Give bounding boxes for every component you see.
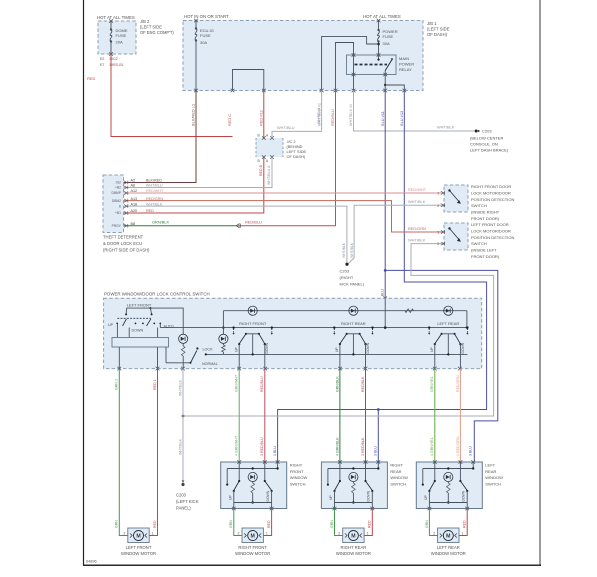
- svg-text:2: 2: [437, 242, 439, 246]
- svg-text:PANEL): PANEL): [176, 506, 191, 511]
- svg-text:RIGHT REAR: RIGHT REAR: [341, 321, 366, 326]
- svg-text:FUSE: FUSE: [383, 34, 394, 39]
- svg-text:SWITCH: SWITCH: [290, 481, 306, 486]
- svg-text:RIGHT: RIGHT: [290, 463, 303, 468]
- svg-text:RED/BLK: RED/BLK: [361, 376, 365, 392]
- svg-text:(LEFT SIDE: (LEFT SIDE: [427, 27, 450, 32]
- svg-text:GRN: GRN: [229, 520, 233, 528]
- svg-text:1: 1: [152, 532, 154, 536]
- svg-text:UP: UP: [108, 323, 114, 327]
- svg-text:64896: 64896: [86, 560, 97, 564]
- svg-text:DOWN: DOWN: [461, 342, 465, 353]
- svg-text:GRN/YEL: GRN/YEL: [430, 376, 434, 392]
- svg-text:POWER WINDOW/DOOR LOCK CONTROL: POWER WINDOW/DOOR LOCK CONTROL SWITCH: [104, 292, 210, 297]
- svg-text:WHT/BLK: WHT/BLK: [178, 379, 182, 396]
- svg-text:LEFT DASH BRACE): LEFT DASH BRACE): [470, 147, 509, 152]
- svg-text:WINDOW: WINDOW: [290, 475, 308, 480]
- svg-text:(BELOW CENTER: (BELOW CENTER: [470, 135, 503, 140]
- svg-text:RED/WHT: RED/WHT: [408, 187, 427, 192]
- svg-text:RED: RED: [153, 520, 157, 528]
- svg-text:NORMAL: NORMAL: [202, 362, 218, 366]
- svg-text:REAR: REAR: [485, 469, 496, 474]
- svg-text:GRN: GRN: [425, 520, 429, 528]
- svg-text:M: M: [251, 534, 255, 540]
- svg-text:WHT/BLK M: WHT/BLK M: [348, 104, 353, 126]
- svg-text:C203: C203: [340, 269, 350, 274]
- svg-text:RED/WHT: RED/WHT: [146, 189, 164, 193]
- svg-text:WINDOW MOTOR: WINDOW MOTOR: [336, 551, 371, 556]
- svg-text:1: 1: [437, 192, 439, 196]
- svg-text:(INSIDE RIGHT: (INSIDE RIGHT: [471, 210, 500, 215]
- svg-text:LEFT REAR: LEFT REAR: [437, 321, 459, 326]
- svg-text:(RIGHT: (RIGHT: [340, 275, 354, 280]
- svg-text:2: 2: [437, 204, 439, 208]
- svg-text:LOCK MOTOR/DOOR: LOCK MOTOR/DOOR: [471, 190, 511, 195]
- svg-text:J/B 2: J/B 2: [140, 19, 150, 24]
- svg-text:18G2: 18G2: [109, 57, 118, 61]
- svg-text:HOT AT ALL TIMES: HOT AT ALL TIMES: [363, 14, 401, 19]
- svg-text:DBMP: DBMP: [111, 191, 121, 195]
- svg-text:2: 2: [123, 532, 125, 536]
- svg-text:A2: A2: [131, 179, 136, 183]
- svg-text:RED/GRN: RED/GRN: [456, 375, 460, 392]
- svg-text:LEFT FRONT: LEFT FRONT: [127, 302, 152, 307]
- svg-text:(RIGHT SIDE OF DASH): (RIGHT SIDE OF DASH): [103, 248, 150, 253]
- svg-text:1 RED/GRN: 1 RED/GRN: [456, 436, 460, 456]
- svg-text:RED C: RED C: [227, 114, 232, 126]
- svg-text:RIGHT FRONT DOOR: RIGHT FRONT DOOR: [471, 184, 511, 189]
- svg-text:DOWN: DOWN: [266, 490, 270, 501]
- svg-text:GRN: GRN: [330, 520, 334, 528]
- svg-text:RED/BLU: RED/BLU: [260, 376, 264, 392]
- svg-text:GRN/BLK: GRN/BLK: [335, 376, 339, 392]
- svg-text:OF ENG COMP'T): OF ENG COMP'T): [140, 30, 174, 35]
- svg-text:WHT/BLK: WHT/BLK: [342, 242, 346, 258]
- svg-text:A13: A13: [131, 197, 138, 201]
- svg-text:WHT/BLK: WHT/BLK: [408, 238, 426, 243]
- svg-text:C203: C203: [482, 129, 492, 134]
- svg-text:E2: E2: [100, 57, 104, 61]
- svg-text:LOCK: LOCK: [203, 347, 214, 351]
- svg-text:FUSE: FUSE: [116, 33, 127, 38]
- svg-text:POSITION DETECTION: POSITION DETECTION: [471, 235, 514, 240]
- svg-text:DOWN: DOWN: [132, 329, 144, 333]
- svg-text:POWER: POWER: [399, 62, 414, 67]
- svg-text:SWITCH: SWITCH: [485, 481, 501, 486]
- svg-text:RED 1: RED 1: [153, 379, 157, 390]
- svg-text:DOWN: DOWN: [366, 342, 370, 353]
- svg-text:BLU #13: BLU #13: [399, 111, 404, 126]
- svg-text:RIGHT FRONT: RIGHT FRONT: [238, 545, 267, 550]
- svg-text:M: M: [136, 534, 140, 540]
- svg-text:1 BLU: 1 BLU: [273, 446, 277, 456]
- svg-text:SWITCH: SWITCH: [390, 481, 406, 486]
- svg-text:DOWN: DOWN: [462, 490, 466, 501]
- svg-text:REAR: REAR: [390, 469, 401, 474]
- svg-text:BLU #11: BLU #11: [380, 111, 385, 126]
- svg-text:RED: RED: [267, 520, 271, 528]
- svg-text:RED: RED: [463, 520, 467, 528]
- svg-text:WHT/BLU: WHT/BLU: [146, 184, 163, 188]
- svg-text:M: M: [351, 534, 355, 540]
- svg-text:30A: 30A: [200, 40, 207, 45]
- svg-text:WHT/BLK: WHT/BLK: [178, 438, 182, 455]
- svg-text:3 BLU: 3 BLU: [374, 446, 378, 456]
- svg-text:RED B: RED B: [259, 164, 263, 176]
- svg-text:GRN 2: GRN 2: [115, 379, 119, 390]
- svg-text:C203: C203: [176, 493, 187, 498]
- svg-text:RED: RED: [146, 209, 154, 213]
- svg-text:1: 1: [266, 532, 268, 536]
- svg-text:3 RED/BLU: 3 RED/BLU: [260, 437, 264, 456]
- svg-text:M: M: [446, 534, 450, 540]
- svg-text:J/B 1: J/B 1: [427, 21, 437, 26]
- svg-text:& DOOR LOCK ECU: & DOOR LOCK ECU: [103, 241, 142, 246]
- svg-text:FRONT: FRONT: [290, 469, 304, 474]
- svg-text:FRONT DOOR): FRONT DOOR): [471, 254, 500, 259]
- svg-text:+B2: +B2: [115, 186, 121, 190]
- svg-text:MAIN: MAIN: [399, 56, 409, 61]
- svg-text:2: 2: [238, 532, 240, 536]
- svg-text:(LEFT KICK: (LEFT KICK: [176, 499, 199, 504]
- svg-text:SWITCH: SWITCH: [471, 203, 487, 208]
- svg-text:E7: E7: [100, 63, 104, 67]
- svg-text:OF DASH): OF DASH): [287, 154, 306, 159]
- svg-text:GRN: GRN: [115, 520, 119, 528]
- svg-text:HOT IN ON OR START: HOT IN ON OR START: [184, 14, 229, 19]
- svg-text:1: 1: [367, 532, 369, 536]
- svg-text:1: 1: [437, 231, 439, 235]
- svg-text:30A: 30A: [383, 41, 390, 46]
- svg-text:20A: 20A: [116, 40, 123, 45]
- svg-text:WHT/BLU: WHT/BLU: [317, 107, 321, 124]
- svg-text:A18: A18: [131, 202, 138, 206]
- svg-text:LEFT FRONT DOOR: LEFT FRONT DOOR: [471, 222, 509, 227]
- svg-text:FUSE: FUSE: [200, 33, 211, 38]
- svg-text:RED/BLU: RED/BLU: [245, 219, 262, 224]
- svg-text:LOCK MOTOR/DOOR: LOCK MOTOR/DOOR: [471, 228, 511, 233]
- svg-text:POSITION DETECTION: POSITION DETECTION: [471, 197, 514, 202]
- svg-text:1: 1: [462, 532, 464, 536]
- svg-text:RED: RED: [87, 76, 96, 81]
- svg-text:RED/GRN: RED/GRN: [146, 197, 163, 201]
- svg-text:THEFT DETERRENT: THEFT DETERRENT: [103, 235, 144, 240]
- svg-text:DOWN: DOWN: [367, 490, 371, 501]
- svg-text:RED #12: RED #12: [259, 110, 264, 126]
- svg-text:BLK/RED: BLK/RED: [146, 179, 162, 183]
- svg-text:UP: UP: [430, 347, 434, 352]
- svg-text:KICK PANEL): KICK PANEL): [340, 282, 365, 287]
- svg-text:4 GRN/YEL: 4 GRN/YEL: [430, 437, 434, 456]
- svg-text:RIGHT: RIGHT: [390, 463, 403, 468]
- svg-text:LEFT FRONT: LEFT FRONT: [126, 545, 152, 550]
- svg-text:4 GRN/WHT: 4 GRN/WHT: [235, 435, 239, 456]
- svg-text:WHT/BLU A: WHT/BLU A: [267, 165, 271, 185]
- svg-text:+B1: +B1: [115, 211, 121, 215]
- svg-text:WINDOW: WINDOW: [485, 475, 503, 480]
- svg-text:WHT/BLU: WHT/BLU: [277, 125, 295, 130]
- svg-text:A12: A12: [131, 189, 138, 193]
- svg-text:LEFT: LEFT: [485, 463, 495, 468]
- svg-text:RIGHT FRONT: RIGHT FRONT: [239, 321, 267, 326]
- svg-text:DOWN: DOWN: [265, 342, 269, 353]
- svg-text:GRN/WHT: GRN/WHT: [235, 374, 239, 392]
- svg-text:RELAY: RELAY: [399, 67, 412, 72]
- svg-text:WHT/BLK: WHT/BLK: [437, 125, 455, 130]
- svg-text:UP: UP: [235, 347, 239, 352]
- svg-text:WINDOW MOTOR: WINDOW MOTOR: [121, 551, 156, 556]
- svg-text:UP: UP: [329, 495, 333, 500]
- svg-text:WINDOW MOTOR: WINDOW MOTOR: [431, 551, 466, 556]
- svg-text:RED: RED: [368, 520, 372, 528]
- svg-text:(LEFT SIDE: (LEFT SIDE: [140, 25, 162, 30]
- svg-text:3 BLU: 3 BLU: [469, 446, 473, 456]
- svg-text:OF DASH): OF DASH): [427, 32, 448, 37]
- svg-text:BLK/RED L1: BLK/RED L1: [191, 104, 196, 126]
- svg-text:FRONT DOOR): FRONT DOOR): [471, 216, 500, 221]
- svg-text:CONSOLE, ON: CONSOLE, ON: [470, 141, 498, 146]
- svg-text:(INSIDE LEFT: (INSIDE LEFT: [471, 248, 497, 253]
- svg-text:UP: UP: [335, 347, 339, 352]
- svg-text:RED/GRN: RED/GRN: [408, 226, 426, 231]
- svg-text:SWITCH: SWITCH: [471, 241, 487, 246]
- svg-text:UP: UP: [229, 495, 233, 500]
- svg-text:A20: A20: [131, 209, 138, 213]
- svg-text:WHT/BLK: WHT/BLK: [408, 199, 426, 204]
- svg-text:B8: B8: [131, 222, 136, 226]
- svg-text:4 GRN/BLK: 4 GRN/BLK: [335, 437, 339, 456]
- svg-text:LEFT REAR: LEFT REAR: [437, 545, 460, 550]
- svg-text:WHT/BLK: WHT/BLK: [350, 242, 354, 258]
- svg-text:RIGHT REAR: RIGHT REAR: [341, 545, 367, 550]
- svg-text:UP: UP: [424, 495, 428, 500]
- svg-text:WINDOW: WINDOW: [390, 475, 408, 480]
- svg-text:BLU: BLU: [380, 289, 384, 296]
- svg-text:WINDOW MOTOR: WINDOW MOTOR: [235, 551, 270, 556]
- svg-text:GRN/BLK: GRN/BLK: [152, 219, 169, 224]
- svg-text:WHT/BLK: WHT/BLK: [146, 202, 163, 206]
- svg-text:2: 2: [433, 532, 435, 536]
- svg-text:2: 2: [338, 532, 340, 536]
- svg-text:IG2: IG2: [116, 181, 121, 185]
- svg-text:RED/BLU: RED/BLU: [330, 109, 335, 126]
- svg-text:PRGY: PRGY: [112, 224, 122, 228]
- svg-text:3 RED/BLK: 3 RED/BLK: [361, 437, 365, 456]
- svg-text:HOT AT ALL TIMES: HOT AT ALL TIMES: [97, 15, 135, 20]
- svg-text:A8: A8: [131, 184, 136, 188]
- svg-text:DBM2: DBM2: [112, 199, 121, 203]
